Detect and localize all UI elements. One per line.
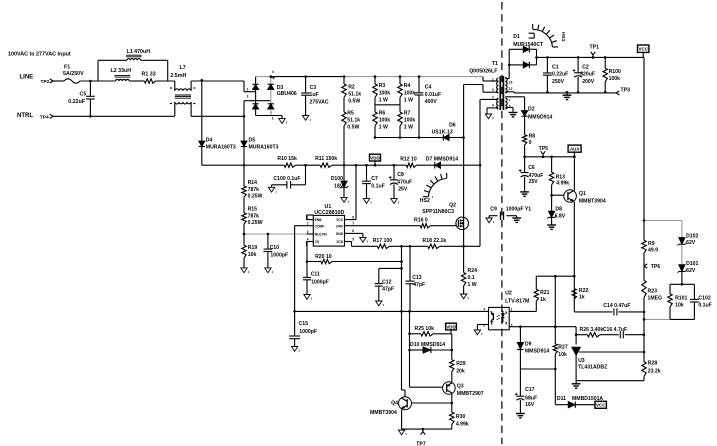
svg-text:23.2k: 23.2k xyxy=(648,368,661,374)
svg-text:1 W: 1 W xyxy=(379,125,388,131)
svg-text:5: 5 xyxy=(352,237,354,241)
svg-text:4: 4 xyxy=(483,308,485,312)
svg-text:D7 MMSD914: D7 MMSD914 xyxy=(426,156,458,162)
svg-text:2.5mH: 2.5mH xyxy=(170,73,186,79)
svg-text:51.1k: 51.1k xyxy=(348,91,361,97)
svg-text:275VAC: 275VAC xyxy=(310,99,329,105)
svg-text:47pF: 47pF xyxy=(413,282,425,288)
svg-text:C1: C1 xyxy=(552,64,559,70)
svg-text:7: 7 xyxy=(509,98,511,102)
svg-text:100k: 100k xyxy=(379,90,391,96)
svg-text:0: 0 xyxy=(529,140,532,146)
svg-text:C2: C2 xyxy=(582,64,589,70)
svg-text:820uF: 820uF xyxy=(580,72,595,78)
svg-text:R25 10k: R25 10k xyxy=(415,326,435,332)
svg-text:1 W: 1 W xyxy=(404,97,413,103)
svg-text:R28: R28 xyxy=(648,361,658,367)
svg-text:ZCD: ZCD xyxy=(336,240,343,244)
svg-text:C16 4.7uF: C16 4.7uF xyxy=(603,327,627,333)
svg-text:0.25W: 0.25W xyxy=(248,193,263,199)
svg-text:MMSD914: MMSD914 xyxy=(525,348,549,354)
svg-text:787k: 787k xyxy=(248,187,260,193)
svg-text:C6: C6 xyxy=(528,165,535,171)
svg-text:0.5W: 0.5W xyxy=(348,98,360,104)
svg-text:100k: 100k xyxy=(609,76,621,82)
svg-text:2: 2 xyxy=(247,87,249,91)
svg-text:400V: 400V xyxy=(425,99,438,105)
svg-text:62V: 62V xyxy=(686,240,696,246)
svg-text:4: 4 xyxy=(307,237,309,241)
svg-text:1 W: 1 W xyxy=(379,97,388,103)
svg-text:D2: D2 xyxy=(528,107,535,113)
svg-text:0.1uF: 0.1uF xyxy=(698,302,711,308)
svg-text:R100: R100 xyxy=(609,69,621,75)
svg-text:Q005026LF: Q005026LF xyxy=(469,69,498,75)
svg-text:2: 2 xyxy=(307,222,309,226)
svg-text:16V: 16V xyxy=(525,402,535,408)
svg-text:LINE: LINE xyxy=(20,74,34,80)
svg-text:1: 1 xyxy=(307,215,309,219)
svg-text:51.1k: 51.1k xyxy=(347,117,360,123)
svg-text:NTRL: NTRL xyxy=(17,113,33,119)
svg-text:AUX: AUX xyxy=(570,147,580,152)
svg-text:R27: R27 xyxy=(558,344,568,350)
svg-text:1k: 1k xyxy=(540,297,546,303)
svg-text:GND: GND xyxy=(336,232,344,236)
svg-text:470uF: 470uF xyxy=(397,179,412,185)
svg-text:R14: R14 xyxy=(248,180,258,186)
svg-text:2: 2 xyxy=(492,96,494,100)
svg-text:1k: 1k xyxy=(579,295,585,301)
svg-text:R21: R21 xyxy=(540,290,550,296)
svg-text:12: 12 xyxy=(509,87,513,91)
svg-text:Q3: Q3 xyxy=(457,384,464,390)
svg-text:R30: R30 xyxy=(456,414,466,420)
svg-text:250V: 250V xyxy=(552,79,565,85)
svg-text:R10 15k: R10 15k xyxy=(277,156,297,162)
svg-text:D102: D102 xyxy=(686,233,698,239)
svg-text:6: 6 xyxy=(509,105,511,109)
svg-text:1000pF Y1: 1000pF Y1 xyxy=(506,206,531,212)
svg-text:R12 10: R12 10 xyxy=(400,156,417,162)
svg-text:R3: R3 xyxy=(379,83,386,89)
svg-text:U3: U3 xyxy=(578,358,585,364)
svg-text:1: 1 xyxy=(492,78,494,82)
svg-text:100k: 100k xyxy=(379,118,391,124)
svg-text:C5: C5 xyxy=(80,92,87,98)
svg-text:R11 150k: R11 150k xyxy=(315,156,337,162)
svg-text:0.5W: 0.5W xyxy=(347,125,359,131)
svg-text:1000pF: 1000pF xyxy=(299,329,317,335)
svg-text:MMBT2907: MMBT2907 xyxy=(457,391,484,397)
svg-text:6: 6 xyxy=(352,229,354,233)
svg-text:C7: C7 xyxy=(371,176,378,182)
svg-text:7: 7 xyxy=(352,222,354,226)
svg-text:COMP: COMP xyxy=(315,224,326,228)
svg-text:49.9: 49.9 xyxy=(648,248,658,254)
svg-text:R17 100: R17 100 xyxy=(373,238,393,244)
svg-text:47pF: 47pF xyxy=(382,287,394,293)
svg-text:TP4: TP4 xyxy=(40,114,49,120)
svg-text:R5: R5 xyxy=(347,110,354,116)
svg-text:TP1: TP1 xyxy=(590,45,600,51)
svg-text:R6: R6 xyxy=(379,111,386,117)
svg-text:R19: R19 xyxy=(248,245,258,251)
svg-text:VDD: VDD xyxy=(370,156,380,161)
svg-text:R4: R4 xyxy=(404,83,411,89)
svg-text:C15: C15 xyxy=(299,321,309,327)
svg-text:D9: D9 xyxy=(525,342,532,348)
svg-text:R24: R24 xyxy=(468,268,478,274)
svg-text:200V: 200V xyxy=(582,79,595,85)
svg-text:100k: 100k xyxy=(404,118,416,124)
svg-text:4: 4 xyxy=(492,104,494,108)
svg-text:MURA160T3: MURA160T3 xyxy=(206,144,236,150)
svg-text:0.22uF: 0.22uF xyxy=(552,72,568,78)
svg-text:10k: 10k xyxy=(558,352,567,358)
svg-text:0.1uF: 0.1uF xyxy=(371,183,384,189)
svg-text:U1: U1 xyxy=(325,204,332,210)
svg-text:R26 3.40k: R26 3.40k xyxy=(580,327,604,333)
svg-text:MULTIN: MULTIN xyxy=(315,233,328,237)
svg-text:D4: D4 xyxy=(206,138,213,144)
svg-text:R15: R15 xyxy=(248,207,258,213)
svg-text:C3: C3 xyxy=(310,85,317,91)
svg-text:62V: 62V xyxy=(686,268,696,274)
svg-text:MMBT3904: MMBT3904 xyxy=(579,198,606,204)
svg-text:787k: 787k xyxy=(248,213,260,219)
svg-text:GBU406: GBU406 xyxy=(277,91,297,97)
svg-text:3: 3 xyxy=(483,323,485,327)
svg-text:6.8V: 6.8V xyxy=(555,214,566,220)
svg-text:Q4: Q4 xyxy=(391,400,398,406)
svg-text:R1 33: R1 33 xyxy=(142,72,156,78)
svg-text:F1: F1 xyxy=(64,64,70,70)
svg-text:1uF: 1uF xyxy=(310,92,319,98)
svg-text:1000pF: 1000pF xyxy=(270,253,288,259)
svg-text:R2: R2 xyxy=(348,84,355,90)
svg-text:3: 3 xyxy=(247,95,249,99)
svg-text:1000pF: 1000pF xyxy=(311,279,329,285)
svg-text:TP6: TP6 xyxy=(651,264,661,270)
svg-text:CS: CS xyxy=(315,240,320,244)
svg-text:1MEG: 1MEG xyxy=(648,295,663,301)
svg-text:VDD: VDD xyxy=(446,324,456,329)
svg-text:C14 0.47uF: C14 0.47uF xyxy=(603,303,630,309)
svg-text:D11: D11 xyxy=(557,396,566,402)
svg-text:MMSD914: MMSD914 xyxy=(528,114,552,120)
svg-text:0.25W: 0.25W xyxy=(248,220,263,226)
svg-text:MURA160T3: MURA160T3 xyxy=(249,144,279,150)
svg-text:0.1: 0.1 xyxy=(468,275,475,281)
svg-text:25V: 25V xyxy=(529,179,539,185)
svg-text:D10 MMSD914: D10 MMSD914 xyxy=(410,342,445,348)
svg-text:0.22uF: 0.22uF xyxy=(68,99,86,105)
svg-text:0.01uF: 0.01uF xyxy=(425,92,441,98)
svg-text:R29: R29 xyxy=(456,361,466,367)
svg-text:1 W: 1 W xyxy=(468,282,477,288)
svg-text:T1: T1 xyxy=(492,61,498,67)
svg-text:C100 0.1uF: C100 0.1uF xyxy=(273,176,300,182)
svg-text:VCC: VCC xyxy=(596,403,606,408)
svg-text:R18 22.1k: R18 22.1k xyxy=(423,238,447,244)
svg-text:3: 3 xyxy=(492,88,494,92)
svg-text:1 W: 1 W xyxy=(404,125,413,131)
svg-text:U2: U2 xyxy=(505,291,512,297)
svg-text:C13: C13 xyxy=(412,275,422,281)
svg-text:C17: C17 xyxy=(525,387,535,393)
svg-text:TP2: TP2 xyxy=(41,79,50,85)
svg-text:100k: 100k xyxy=(404,90,416,96)
svg-text:SPP11N80C3: SPP11N80C3 xyxy=(422,209,454,215)
svg-text:R16 0: R16 0 xyxy=(414,218,428,224)
svg-text:C10: C10 xyxy=(270,245,280,251)
svg-text:R7: R7 xyxy=(404,111,411,117)
svg-text:C9: C9 xyxy=(490,206,497,212)
svg-text:D6: D6 xyxy=(449,122,456,128)
svg-text:4.99k: 4.99k xyxy=(456,422,469,428)
svg-text:D8: D8 xyxy=(555,207,562,213)
svg-text:C102: C102 xyxy=(698,295,710,301)
svg-text:MMBT3904: MMBT3904 xyxy=(370,410,397,416)
svg-text:16: 16 xyxy=(509,80,513,84)
svg-text:4.99k: 4.99k xyxy=(556,181,569,187)
svg-text:68uF: 68uF xyxy=(525,395,537,401)
svg-text:VCC: VCC xyxy=(336,218,344,222)
svg-text:R22: R22 xyxy=(579,288,589,294)
svg-text:L1 470uH: L1 470uH xyxy=(127,49,151,55)
svg-text:C8: C8 xyxy=(397,172,404,178)
svg-text:US1K-13: US1K-13 xyxy=(432,129,453,135)
svg-text:4: 4 xyxy=(272,70,274,74)
svg-text:10k: 10k xyxy=(675,302,684,308)
svg-text:D100: D100 xyxy=(331,176,343,182)
svg-text:L7: L7 xyxy=(180,65,186,71)
svg-text:20k: 20k xyxy=(456,369,465,375)
svg-text:2: 2 xyxy=(511,323,513,327)
svg-text:D101: D101 xyxy=(686,261,698,267)
svg-text:TP7: TP7 xyxy=(416,441,426,446)
svg-text:C4: C4 xyxy=(425,84,432,90)
svg-text:C11: C11 xyxy=(311,272,320,278)
svg-text:1: 1 xyxy=(511,308,513,312)
svg-text:R20 10: R20 10 xyxy=(315,254,332,260)
svg-text:100VAC to 277VAC Input: 100VAC to 277VAC Input xyxy=(8,52,71,58)
svg-text:TP5: TP5 xyxy=(539,146,549,152)
svg-text:R23: R23 xyxy=(648,288,658,294)
svg-text:R9: R9 xyxy=(648,241,655,247)
svg-text:DRV: DRV xyxy=(336,224,344,228)
svg-text:1: 1 xyxy=(272,116,274,120)
svg-text:C12: C12 xyxy=(382,280,392,286)
svg-text:VCC: VCC xyxy=(638,47,648,52)
svg-text:LTV-817M: LTV-817M xyxy=(505,298,530,304)
svg-text:Q2: Q2 xyxy=(449,203,456,209)
svg-text:18V: 18V xyxy=(334,183,344,189)
svg-text:8: 8 xyxy=(352,215,354,219)
svg-text:TP3: TP3 xyxy=(621,88,631,94)
svg-text:3: 3 xyxy=(307,230,309,234)
svg-text:25V: 25V xyxy=(398,187,408,193)
svg-text:L2 33uH: L2 33uH xyxy=(111,68,132,74)
svg-text:MUR1540CT: MUR1540CT xyxy=(513,42,544,48)
svg-text:R101: R101 xyxy=(675,295,687,301)
svg-text:D5: D5 xyxy=(249,138,256,144)
svg-text:Q1: Q1 xyxy=(579,191,586,197)
svg-text:10k: 10k xyxy=(248,252,257,258)
svg-text:R8: R8 xyxy=(529,133,536,139)
svg-text:R13: R13 xyxy=(556,174,566,180)
svg-text:TL431ADBZ: TL431ADBZ xyxy=(578,365,607,371)
svg-text:D1: D1 xyxy=(513,34,520,40)
svg-text:HS2: HS2 xyxy=(420,198,430,204)
svg-text:HS1: HS1 xyxy=(560,32,566,42)
svg-text:5A/250V: 5A/250V xyxy=(63,71,84,77)
svg-text:ENB: ENB xyxy=(315,218,323,222)
